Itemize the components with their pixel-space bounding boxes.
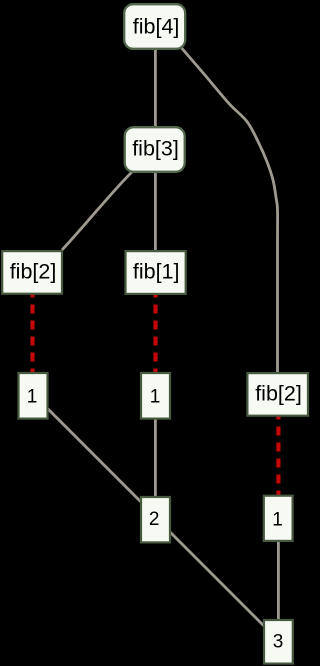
svg-text:1: 1 xyxy=(272,509,283,530)
wire fib[4]->fib[3] xyxy=(154,46,157,130)
node fib[2] left xyxy=(2,251,62,294)
node 2 (result) xyxy=(141,497,170,542)
svg-text:1: 1 xyxy=(27,386,38,407)
svg-text:fib[3]: fib[3] xyxy=(132,137,179,161)
node fib[2] right xyxy=(247,373,308,416)
svg-text:fib[2]: fib[2] xyxy=(10,260,57,284)
node 1 mid (leaf) xyxy=(141,373,170,419)
svg-text:2: 2 xyxy=(149,509,160,530)
node 1 right (leaf) xyxy=(264,496,293,541)
memo wire fib[2] left ->1 (red dashed) xyxy=(30,295,34,373)
node 3 (result) xyxy=(264,620,293,664)
svg-text:fib[2]: fib[2] xyxy=(255,381,302,405)
wire fib[4]->fib[2] right (curved) xyxy=(179,45,278,374)
wire 1 left ->2 xyxy=(47,408,142,503)
node 1 left (leaf) xyxy=(19,373,48,419)
node fib[1] xyxy=(126,251,186,294)
svg-text:fib[1]: fib[1] xyxy=(133,260,180,284)
wire 1 right ->3 xyxy=(277,539,280,621)
node fib[4] xyxy=(124,4,185,49)
svg-text:3: 3 xyxy=(273,632,284,653)
wire 2->3 xyxy=(168,530,265,627)
svg-text:fib[4]: fib[4] xyxy=(133,15,180,39)
svg-text:1: 1 xyxy=(150,386,161,407)
wire fib[3]->fib[1] xyxy=(154,170,157,252)
memo wire fib[1]->1 (red dashed) xyxy=(153,295,157,373)
wire 1 mid ->2 xyxy=(154,417,157,498)
memo wire fib[2] right ->1 (red dashed) xyxy=(276,417,280,496)
wire fib[3]->fib[2] left xyxy=(62,172,133,251)
node fib[3] xyxy=(125,127,185,172)
